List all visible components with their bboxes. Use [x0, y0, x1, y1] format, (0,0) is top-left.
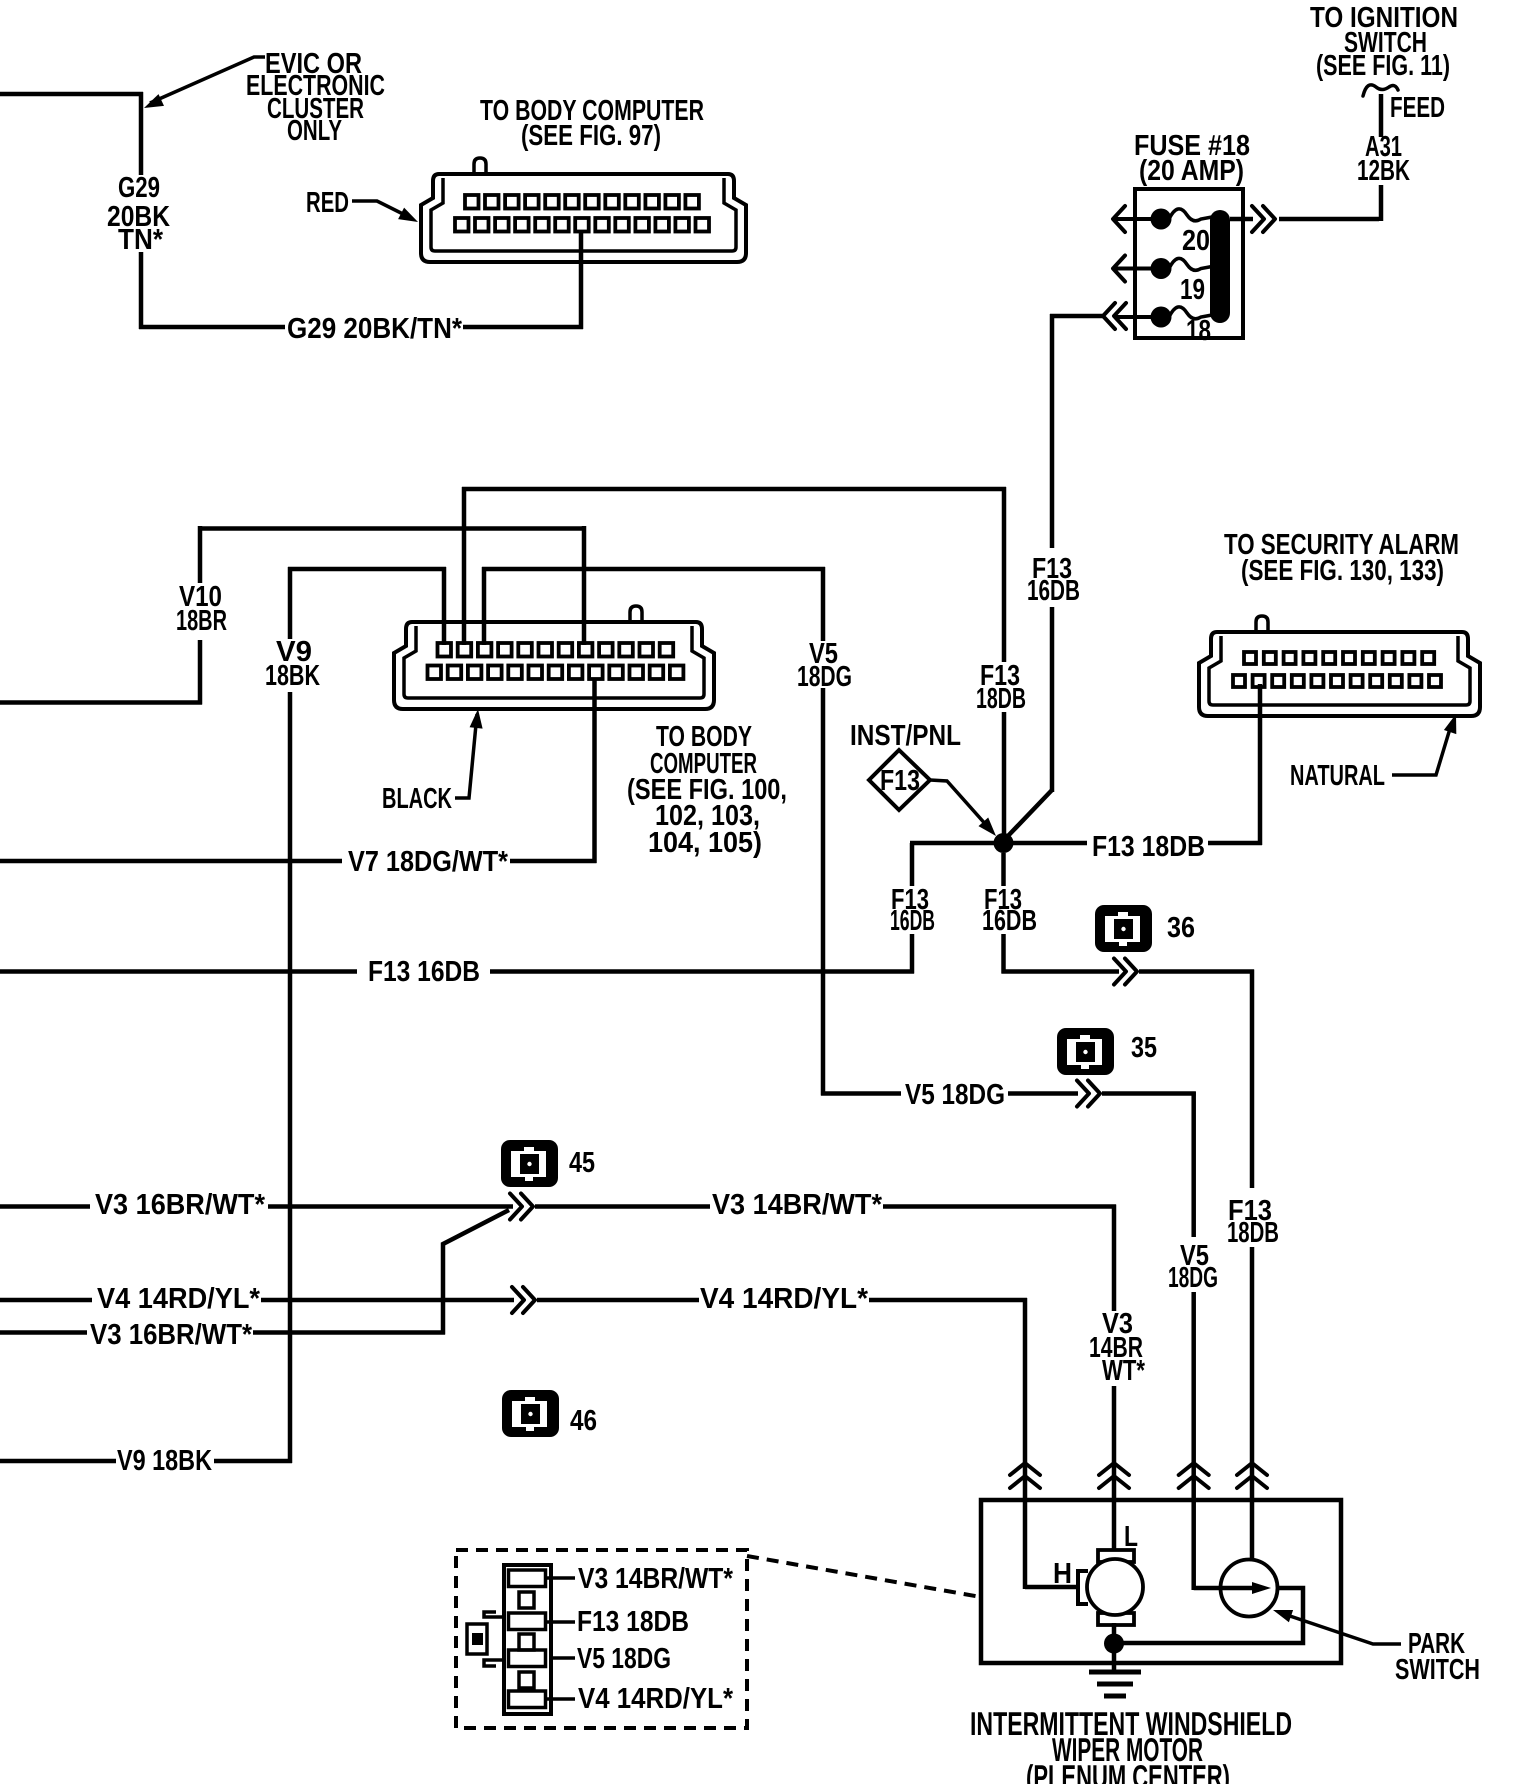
svg-text:16DB: 16DB [982, 905, 1037, 937]
svg-text:SWITCH: SWITCH [1395, 1654, 1480, 1686]
svg-text:RED: RED [306, 187, 349, 219]
svg-text:G29 20BK/TN*: G29 20BK/TN* [287, 313, 463, 345]
svg-text:V4 14RD/YL*: V4 14RD/YL* [700, 1283, 869, 1315]
svg-text:36: 36 [1167, 912, 1195, 944]
svg-text:18DB: 18DB [1227, 1217, 1279, 1249]
svg-text:(SEE FIG. 11): (SEE FIG. 11) [1316, 50, 1450, 82]
svg-text:WT*: WT* [1102, 1355, 1146, 1387]
svg-text:V7 18DG/WT*: V7 18DG/WT* [348, 846, 509, 878]
svg-text:(PLENUM CENTER): (PLENUM CENTER) [1026, 1758, 1230, 1784]
svg-text:BLACK: BLACK [382, 783, 452, 815]
svg-text:V3 16BR/WT*: V3 16BR/WT* [90, 1319, 253, 1351]
svg-text:FEED: FEED [1390, 92, 1445, 124]
svg-text:18DG: 18DG [797, 661, 852, 693]
svg-text:H: H [1053, 1558, 1072, 1590]
svg-text:(20 AMP): (20 AMP) [1139, 155, 1244, 187]
svg-text:ONLY: ONLY [287, 115, 342, 147]
svg-text:V3 14BR/WT*: V3 14BR/WT* [712, 1189, 883, 1221]
svg-text:V3 16BR/WT*: V3 16BR/WT* [95, 1189, 266, 1221]
svg-text:18DG: 18DG [1168, 1262, 1218, 1294]
svg-text:F13 18DB: F13 18DB [577, 1606, 689, 1638]
svg-text:INST/PNL: INST/PNL [850, 720, 961, 752]
svg-text:18BR: 18BR [176, 605, 227, 637]
svg-text:G29: G29 [118, 172, 160, 204]
svg-text:20: 20 [1182, 225, 1210, 257]
svg-text:16DB: 16DB [890, 905, 935, 937]
svg-text:F13: F13 [880, 765, 920, 797]
svg-text:12BK: 12BK [1357, 155, 1410, 187]
svg-text:45: 45 [569, 1147, 595, 1179]
svg-text:F13 18DB: F13 18DB [1092, 831, 1205, 863]
svg-text:V9 18BK: V9 18BK [117, 1445, 212, 1477]
svg-text:NATURAL: NATURAL [1290, 760, 1385, 792]
svg-text:V5 18DG: V5 18DG [577, 1643, 671, 1675]
svg-text:TN*: TN* [118, 224, 164, 256]
svg-text:35: 35 [1131, 1032, 1157, 1064]
svg-text:V5 18DG: V5 18DG [905, 1079, 1005, 1111]
svg-text:(SEE FIG. 130, 133): (SEE FIG. 130, 133) [1241, 555, 1444, 587]
svg-text:V3 14BR/WT*: V3 14BR/WT* [578, 1563, 734, 1595]
svg-text:18BK: 18BK [265, 660, 320, 692]
svg-text:16DB: 16DB [1027, 575, 1080, 607]
svg-text:F13 16DB: F13 16DB [368, 956, 480, 988]
svg-text:46: 46 [570, 1405, 597, 1437]
svg-text:V4 14RD/YL*: V4 14RD/YL* [578, 1683, 734, 1715]
svg-text:(SEE FIG. 97): (SEE FIG. 97) [521, 120, 661, 152]
svg-text:18DB: 18DB [976, 683, 1026, 715]
svg-text:V4 14RD/YL*: V4 14RD/YL* [97, 1283, 261, 1315]
svg-text:18: 18 [1186, 315, 1211, 347]
svg-text:L: L [1124, 1521, 1138, 1553]
svg-text:104, 105): 104, 105) [648, 827, 762, 859]
svg-text:19: 19 [1180, 274, 1205, 306]
